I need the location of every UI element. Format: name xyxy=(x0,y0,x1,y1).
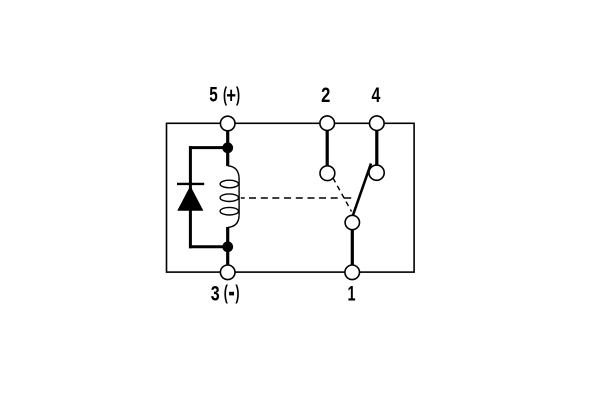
svg-text:3: 3 xyxy=(211,282,220,305)
coil L1 bottom hook xyxy=(228,215,239,227)
coil L1 loop 1 xyxy=(220,180,238,188)
armature (switch blade) to contact 4 xyxy=(353,164,372,217)
wire: diode branch top horizontal xyxy=(189,146,228,149)
relay body outline xyxy=(167,123,415,272)
junction node lower xyxy=(222,241,233,252)
coil L1 loop 2 xyxy=(220,194,238,202)
svg-text:+: + xyxy=(226,83,236,108)
coil L1 loop 3 xyxy=(220,207,238,215)
wire: terminal 4 stub to contact xyxy=(375,126,378,167)
wire: junction to coil top xyxy=(226,148,229,166)
wire: terminal 5 stub down to coil junction xyxy=(226,126,229,148)
junction node upper xyxy=(222,142,233,153)
terminal 4 circle xyxy=(370,116,385,131)
svg-text:4: 4 xyxy=(372,84,381,107)
wire: terminal 2 stub to contact xyxy=(326,126,329,167)
diode D1 triangle xyxy=(178,186,203,210)
svg-text:(: ( xyxy=(224,282,228,305)
wire: diode branch left vertical xyxy=(189,146,192,248)
dashed armature alternate position toward contact 2 xyxy=(333,178,352,212)
svg-text:2: 2 xyxy=(321,84,330,107)
coil L1 top hook xyxy=(228,166,239,179)
wire: pivot to terminal 1 xyxy=(351,226,354,270)
terminal 2 circle xyxy=(320,116,335,131)
contact circle for pin 2 xyxy=(320,166,335,181)
terminal 5 circle xyxy=(220,116,235,131)
dashed actuation line from coil to armature xyxy=(241,197,351,199)
svg-text:): ) xyxy=(236,83,240,106)
wire: coil bottom to junction xyxy=(226,227,229,247)
terminal 3 circle xyxy=(220,265,235,280)
contact circle for pin 4 xyxy=(369,165,384,180)
wire: junction down to terminal 3 xyxy=(226,247,229,270)
coil L1 right vertical xyxy=(238,179,240,216)
svg-text:1: 1 xyxy=(348,282,356,305)
diode D1 cathode bar xyxy=(177,183,204,185)
svg-text:): ) xyxy=(235,282,239,305)
terminal 1 circle xyxy=(345,265,360,280)
wire: diode branch bottom horizontal xyxy=(189,245,228,248)
armature pivot circle xyxy=(345,215,359,229)
svg-text:5: 5 xyxy=(209,84,218,107)
